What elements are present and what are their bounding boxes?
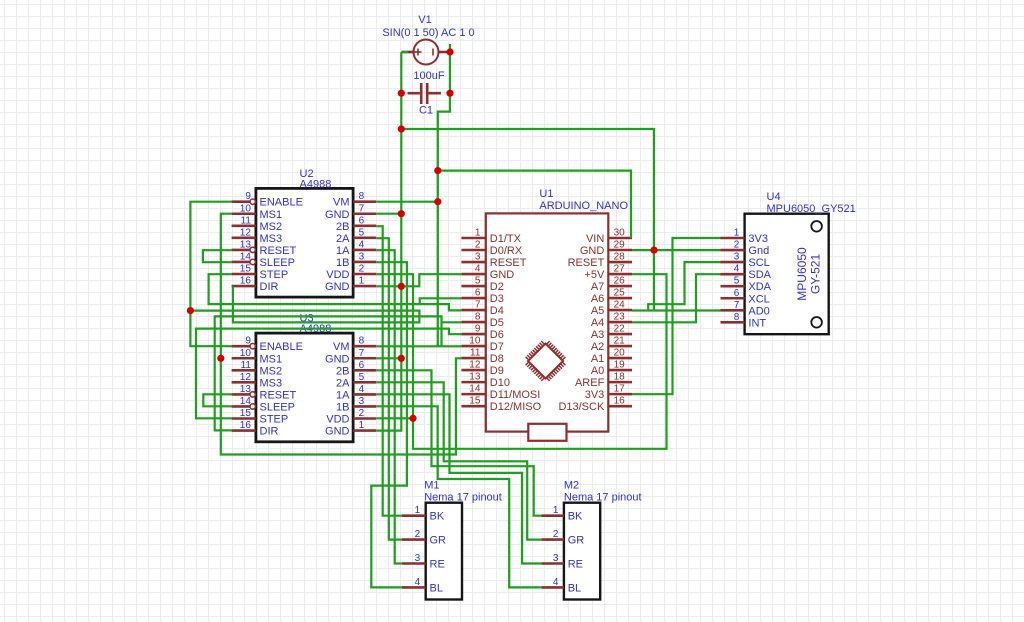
svg-text:1: 1 [553, 505, 559, 516]
op-amp-style IC U3 A4988 stepper driver body [256, 333, 353, 442]
svg-text:SLEEP: SLEEP [260, 401, 295, 413]
svg-text:12: 12 [240, 372, 252, 383]
svg-text:2A: 2A [336, 233, 350, 245]
svg-text:+5V: +5V [584, 269, 605, 281]
svg-text:2: 2 [359, 408, 365, 419]
junction U2 GND1 [398, 283, 405, 290]
svg-text:12: 12 [469, 360, 481, 371]
svg-text:D5: D5 [490, 317, 504, 329]
svg-text:5: 5 [734, 276, 740, 287]
wire GND branch to U1 pin29 and U4 [401, 129, 654, 311]
svg-text:GND: GND [580, 245, 605, 257]
svg-text:28: 28 [614, 252, 626, 263]
svg-text:5: 5 [359, 227, 365, 238]
svg-text:2B: 2B [336, 365, 349, 377]
wire VM branch to U1 VIN [438, 171, 631, 238]
wire U4 SCL jog to A5 net [648, 262, 720, 310]
pins of U4 (numbers 1-8, left side) [721, 228, 772, 330]
svg-text:SCL: SCL [748, 257, 769, 269]
wire V1 plus terminal to junction [449, 44, 451, 93]
wire U1 A5 to U4 AD0 [632, 309, 721, 311]
svg-text:RESET: RESET [568, 257, 605, 269]
svg-text:4: 4 [359, 384, 365, 395]
svg-text:1: 1 [359, 276, 365, 287]
svg-text:A3: A3 [591, 329, 604, 341]
svg-text:VM: VM [333, 341, 350, 353]
wire U3 VDD tap [376, 417, 413, 419]
svg-text:7: 7 [359, 203, 365, 214]
svg-text:11: 11 [241, 215, 252, 226]
svg-text:ARDUINO_NANO: ARDUINO_NANO [539, 200, 628, 212]
microcontroller U1 ARDUINO_NANO body [486, 213, 609, 431]
wire U2 RESET-SLEEP tie [203, 250, 232, 262]
svg-text:13: 13 [469, 372, 481, 383]
wire ENABLE chain U2-U3 [190, 202, 231, 347]
junction V1 plus [446, 48, 453, 55]
junction U3 VDD (+5V) [409, 415, 416, 422]
svg-text:ENABLE: ENABLE [260, 341, 303, 353]
svg-text:2: 2 [475, 240, 481, 251]
pins of M2 (numbers 1-4) [541, 505, 584, 594]
svg-text:A6: A6 [591, 293, 604, 305]
svg-text:10: 10 [240, 348, 252, 359]
svg-text:Gnd: Gnd [748, 245, 769, 257]
svg-text:1B: 1B [336, 401, 349, 413]
svg-text:12: 12 [240, 227, 252, 238]
svg-text:1: 1 [734, 228, 740, 239]
svg-text:11: 11 [470, 348, 481, 359]
svg-text:RESET: RESET [260, 389, 297, 401]
svg-text:A0: A0 [591, 365, 604, 377]
pins of U2 (numbers 9-16 left, 8-1 right) [232, 191, 377, 293]
svg-text:4: 4 [415, 577, 421, 588]
svg-text:GND: GND [325, 426, 350, 438]
wire GND main vertical (net GND) [376, 52, 401, 431]
wire U3 DIR to U1 D5 [215, 316, 462, 430]
wire U2 GND1 to GND [376, 285, 401, 287]
capacitor C1 [408, 83, 442, 104]
junction U3 MS1 [217, 355, 224, 362]
svg-text:7: 7 [734, 300, 740, 311]
svg-text:2: 2 [553, 529, 559, 540]
svg-text:DIR: DIR [260, 426, 279, 438]
U4 mounting hole top [811, 221, 822, 232]
svg-text:3V3: 3V3 [748, 233, 768, 245]
junction ENABLE-D4 rail [187, 307, 194, 314]
svg-text:11: 11 [241, 360, 252, 371]
junction GND branch [398, 125, 405, 132]
svg-text:29: 29 [614, 240, 626, 251]
wire U1 GND29 to U4 Gnd [632, 249, 721, 251]
wire U3 VM line to U1 D7 [376, 345, 461, 347]
pins of M1 (numbers 1-4) [402, 505, 446, 594]
pins of U1 (numbers 1-15 left, 30-16 right) [461, 228, 632, 414]
svg-text:3: 3 [553, 553, 559, 564]
svg-text:19: 19 [614, 360, 626, 371]
svg-text:BL: BL [430, 582, 443, 594]
svg-text:16: 16 [240, 420, 252, 431]
svg-text:6: 6 [475, 288, 481, 299]
svg-text:A4: A4 [591, 317, 604, 329]
wire U1 3V3 to U4 3V3 [632, 238, 721, 394]
svg-text:RESET: RESET [260, 245, 297, 257]
wire U2 DIR to ENABLE net [190, 286, 419, 322]
svg-text:GR: GR [568, 535, 585, 547]
svg-text:4: 4 [359, 239, 365, 250]
svg-text:3: 3 [475, 252, 481, 263]
wire U2 1B to M1 BL [371, 262, 407, 587]
svg-text:BK: BK [430, 511, 445, 523]
svg-text:Nema 17 pinout: Nema 17 pinout [564, 492, 642, 504]
svg-text:5: 5 [475, 276, 481, 287]
wire U2 2B to M1 BK [376, 226, 402, 516]
wire branch to U1 D3 [420, 298, 462, 304]
svg-text:D3: D3 [490, 293, 504, 305]
svg-text:A1: A1 [591, 353, 604, 365]
svg-text:A7: A7 [591, 281, 604, 293]
wire U2 VM pin to VM rail [376, 201, 438, 203]
wire U3 2B to M2 BK [376, 370, 541, 515]
svg-text:D4: D4 [490, 305, 504, 317]
wire D5 branch down to VM line [440, 322, 442, 346]
svg-text:SDA: SDA [748, 269, 771, 281]
svg-text:27: 27 [614, 264, 626, 275]
svg-text:GY-521: GY-521 [809, 254, 823, 295]
svg-text:STEP: STEP [260, 269, 289, 281]
U1 QFP chip glyph [526, 341, 566, 381]
junction C1 left [398, 90, 405, 97]
svg-text:SLEEP: SLEEP [260, 257, 295, 269]
svg-text:10: 10 [469, 336, 481, 347]
wire U2 2A to M1 GR [376, 238, 402, 539]
svg-text:SIN(0 1 50) AC 1 0: SIN(0 1 50) AC 1 0 [382, 27, 474, 39]
svg-text:MS2: MS2 [260, 365, 283, 377]
wire MS1 chain U2-U3 to U1 D8 [221, 214, 462, 455]
wire V1 minus stub [401, 51, 408, 53]
svg-text:23: 23 [614, 312, 626, 323]
svg-text:5: 5 [359, 372, 365, 383]
junction U2 GND7 [398, 210, 405, 217]
op-amp-style IC U2 A4988 stepper driver body [256, 188, 353, 297]
svg-text:U4: U4 [767, 191, 781, 203]
svg-text:DIR: DIR [260, 281, 279, 293]
wire +5V net U2 VDD - U3 VDD - U1 +5V [376, 274, 666, 449]
svg-text:A2: A2 [591, 341, 604, 353]
svg-text:ENABLE: ENABLE [260, 197, 303, 209]
svg-text:Nema 17 pinout: Nema 17 pinout [424, 492, 502, 504]
svg-text:8: 8 [359, 191, 365, 202]
svg-text:GND: GND [325, 281, 350, 293]
svg-text:6: 6 [359, 215, 365, 226]
svg-text:XDA: XDA [748, 281, 771, 293]
junction U3 GND7 [398, 355, 405, 362]
svg-text:10: 10 [240, 203, 252, 214]
svg-text:V1: V1 [418, 14, 431, 26]
svg-text:M2: M2 [564, 480, 579, 492]
svg-text:MS1: MS1 [260, 209, 283, 221]
sensor module U4 MPU6050_GY521 body [745, 214, 829, 335]
svg-text:D2: D2 [490, 281, 504, 293]
svg-text:GND: GND [490, 269, 515, 281]
svg-text:15: 15 [240, 264, 252, 275]
junction U1 GND29 [650, 247, 657, 254]
svg-text:2: 2 [359, 264, 365, 275]
svg-text:25: 25 [614, 288, 626, 299]
wire U2 1A to M1 RE [376, 250, 402, 563]
svg-text:1A: 1A [336, 389, 350, 401]
svg-text:AREF: AREF [575, 377, 605, 389]
svg-text:VDD: VDD [326, 269, 349, 281]
svg-text:D13/SCK: D13/SCK [558, 401, 605, 413]
svg-text:21: 21 [614, 336, 626, 347]
svg-text:8: 8 [359, 336, 365, 347]
svg-text:D0/RX: D0/RX [490, 245, 523, 257]
svg-text:3: 3 [359, 396, 365, 407]
svg-text:15: 15 [240, 408, 252, 419]
svg-text:16: 16 [614, 396, 626, 407]
svg-text:VM: VM [333, 197, 350, 209]
U4 mounting hole bottom [811, 317, 822, 328]
wire U3 1A to M2 RE [376, 394, 541, 563]
svg-text:1: 1 [475, 228, 481, 239]
svg-text:6: 6 [734, 288, 740, 299]
svg-text:D6: D6 [490, 329, 504, 341]
U1 USB connector glyph [528, 424, 566, 441]
wire U2 GND7 to GND [376, 213, 401, 215]
wire U3 1B to M2 BL [376, 406, 541, 587]
connector M1 Nema 17 pinout body [426, 503, 462, 600]
svg-text:INT: INT [748, 317, 766, 329]
svg-text:2A: 2A [336, 377, 350, 389]
svg-text:C1: C1 [419, 105, 433, 117]
svg-text:4: 4 [734, 264, 740, 275]
svg-text:1: 1 [359, 420, 365, 431]
wire U2 STEP to U1 D4 rail [209, 274, 462, 310]
wire U3 STEP to U1 D6 [196, 329, 461, 419]
svg-text:3: 3 [359, 251, 365, 262]
svg-text:6: 6 [359, 360, 365, 371]
wire U1 A4 to U4 SDA [632, 274, 721, 322]
connector M2 Nema 17 pinout body [564, 503, 600, 600]
junction C1 right [446, 90, 453, 97]
svg-text:RE: RE [568, 559, 583, 571]
svg-text:1A: 1A [336, 245, 350, 257]
svg-text:STEP: STEP [260, 414, 289, 426]
svg-text:U1: U1 [539, 188, 553, 200]
svg-text:26: 26 [614, 276, 626, 287]
svg-text:M1: M1 [424, 480, 439, 492]
svg-text:3: 3 [415, 553, 421, 564]
wire U3 GND7 to GND [376, 357, 401, 359]
svg-text:MS2: MS2 [260, 221, 283, 233]
svg-text:4: 4 [553, 577, 559, 588]
svg-text:9: 9 [475, 324, 481, 335]
svg-text:BK: BK [568, 511, 583, 523]
svg-text:1B: 1B [336, 257, 349, 269]
wire U1 GND4 jog to GND [401, 274, 461, 286]
svg-text:17: 17 [614, 384, 626, 395]
svg-text:2: 2 [734, 240, 740, 251]
svg-text:MS3: MS3 [260, 233, 283, 245]
svg-text:18: 18 [614, 372, 626, 383]
svg-text:D9: D9 [490, 365, 504, 377]
svg-text:8: 8 [734, 312, 740, 323]
svg-text:7: 7 [475, 300, 481, 311]
svg-text:A5: A5 [591, 305, 604, 317]
svg-text:MS3: MS3 [260, 377, 283, 389]
wire U3 RESET-SLEEP tie [203, 394, 231, 406]
wire C1 right to VM rail (net VM) [438, 93, 450, 346]
svg-text:2: 2 [415, 529, 421, 540]
svg-text:A4988: A4988 [300, 178, 332, 190]
svg-text:2B: 2B [336, 221, 349, 233]
svg-text:GND: GND [325, 209, 350, 221]
svg-text:GND: GND [325, 353, 350, 365]
junction VM to VIN branch [434, 167, 441, 174]
svg-text:MPU6050: MPU6050 [795, 247, 809, 301]
svg-text:AD0: AD0 [748, 305, 769, 317]
svg-text:MPU6050_GY521: MPU6050_GY521 [767, 203, 856, 215]
svg-text:16: 16 [240, 276, 252, 287]
svg-text:24: 24 [614, 300, 626, 311]
svg-text:8: 8 [475, 312, 481, 323]
svg-text:RESET: RESET [490, 257, 527, 269]
svg-text:14: 14 [469, 384, 481, 395]
svg-text:BL: BL [568, 582, 581, 594]
svg-text:D8: D8 [490, 353, 504, 365]
svg-text:22: 22 [614, 324, 626, 335]
svg-text:7: 7 [359, 348, 365, 359]
svg-text:XCL: XCL [748, 293, 769, 305]
svg-text:VIN: VIN [586, 233, 604, 245]
svg-text:VDD: VDD [326, 414, 349, 426]
svg-text:1: 1 [415, 505, 421, 516]
svg-text:D10: D10 [490, 377, 510, 389]
voltage source V1 [402, 40, 451, 65]
svg-text:D11/MOSI: D11/MOSI [490, 389, 541, 401]
svg-text:D7: D7 [490, 341, 504, 353]
svg-text:GR: GR [430, 535, 447, 547]
svg-text:4: 4 [475, 264, 481, 275]
svg-text:D1/TX: D1/TX [490, 233, 522, 245]
junction U2 VM [434, 198, 441, 205]
svg-text:MS1: MS1 [260, 353, 283, 365]
svg-text:30: 30 [614, 228, 626, 239]
svg-text:3V3: 3V3 [585, 389, 605, 401]
svg-text:3: 3 [734, 252, 740, 263]
svg-text:100uF: 100uF [413, 70, 444, 82]
svg-text:20: 20 [614, 348, 626, 359]
wire U3 2A to M2 GR [376, 382, 541, 539]
pins of U3 (numbers 9-16 left, 8-1 right) [232, 336, 377, 438]
svg-text:15: 15 [469, 396, 481, 407]
svg-text:RE: RE [430, 559, 445, 571]
svg-text:D12/MISO: D12/MISO [490, 401, 542, 413]
